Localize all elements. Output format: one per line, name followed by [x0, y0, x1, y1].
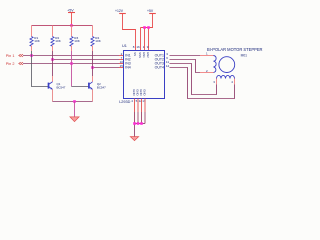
power +12V (motor supply) [115, 9, 136, 50]
wire: Q1 emitter [52, 89, 54, 101]
svg-text:+5V: +5V [147, 9, 154, 13]
svg-text:16: 16 [136, 45, 140, 49]
svg-text:BI-POLAR MOTOR STEPPER: BI-POLAR MOTOR STEPPER [207, 47, 263, 52]
svg-text:M01: M01 [241, 53, 248, 57]
node: IN4-R4 junction [91, 66, 94, 69]
transistor Q2 BC547 [89, 82, 106, 90]
ground (IC) [130, 137, 138, 141]
node: EN2 supply junction [147, 26, 150, 29]
wire: Q2 emitter [92, 89, 94, 101]
resistor R1 [30, 26, 41, 52]
wire: R1 to Q1 base [32, 51, 49, 87]
wire: R4 to Q2 collector [92, 51, 94, 82]
svg-text:10K: 10K [74, 39, 80, 43]
pin numbers left 2,7,10,15 [120, 52, 124, 68]
wire: IN4 net from Q2 collector [93, 67, 124, 69]
svg-text:+5V: +5V [67, 9, 74, 13]
wire: Pin1/IN1 net [23, 55, 124, 57]
node: +5V rail junction [70, 24, 73, 27]
svg-text:L293D: L293D [119, 100, 130, 104]
pin numbers bottom 4,5,12,13 [131, 99, 146, 103]
wire: R3 to Q2 base [72, 51, 90, 87]
svg-text:15: 15 [120, 64, 124, 68]
wire: OUT2 to motor coil A bottom [170, 60, 214, 73]
node: gnd bus junction 3 [140, 122, 143, 125]
wire: OUT1 to motor coil A top [170, 55, 214, 57]
svg-text:OUT4: OUT4 [155, 66, 164, 70]
connector Pin 2 [6, 62, 23, 66]
node: emitter rail junction [73, 100, 76, 103]
transistor Q1 BC547 [49, 82, 66, 90]
svg-text:+12V: +12V [115, 9, 124, 13]
svg-text:GND: GND [143, 89, 147, 95]
svg-text:EN2: EN2 [146, 52, 150, 58]
pin labels IN1-IN4 [125, 54, 131, 70]
svg-text:10K: 10K [55, 39, 61, 43]
pin numbers right 3,6,11,14 [166, 52, 170, 68]
wire: IC ground pins [135, 99, 146, 137]
svg-text:10K: 10K [34, 39, 40, 43]
motor M01 bi-polar stepper [206, 47, 263, 84]
connector Pin 1 [6, 54, 23, 58]
node: Pin1-R1 junction [30, 54, 33, 57]
node: gnd bus junction 2 [137, 122, 140, 125]
wire: OUT3 to motor coil B left [170, 64, 217, 95]
svg-text:10K: 10K [95, 39, 101, 43]
node: EN1 supply junction [143, 26, 146, 29]
wire: OUT4 to motor coil B right [170, 68, 235, 99]
svg-text:14: 14 [166, 64, 170, 68]
resistor R2 [51, 26, 62, 52]
svg-text:Pin 2: Pin 2 [6, 62, 15, 66]
svg-text:VS: VS [133, 52, 137, 56]
resistor R3 [70, 26, 81, 52]
pin labels bottom GND x4 (rotated) [132, 89, 147, 95]
wire: R2 to Q1 collector [52, 51, 54, 82]
svg-text:U1: U1 [122, 44, 127, 48]
pin labels top VS VSS EN1 EN2 (rotated) [133, 52, 150, 58]
power +5V (resistor bank supply) [67, 9, 75, 26]
wire: Pin2/IN3 net [23, 63, 124, 65]
pin numbers top 8,16,1,9 [133, 45, 149, 49]
svg-text:BC547: BC547 [57, 86, 66, 90]
op-amp U1 L293D body [119, 44, 164, 104]
wire: resistor top rail [32, 25, 93, 27]
wire: to ground [74, 102, 76, 117]
power +5V (logic supply) [141, 9, 156, 50]
wire: emitter rail [53, 101, 93, 103]
wire: IN2 net from Q1 collector [53, 59, 124, 61]
svg-text:BC547: BC547 [97, 86, 106, 90]
node: gnd bus junction 1 [133, 122, 136, 125]
pin labels OUT1-OUT4 [155, 54, 164, 70]
resistor R4 [91, 26, 102, 52]
svg-text:IN4: IN4 [125, 66, 131, 70]
svg-text:Pin 1: Pin 1 [6, 54, 15, 58]
node: Pin2-R3 junction [70, 62, 73, 65]
node: IN2-R2 junction [51, 58, 54, 61]
ground (emitters) [70, 117, 79, 122]
